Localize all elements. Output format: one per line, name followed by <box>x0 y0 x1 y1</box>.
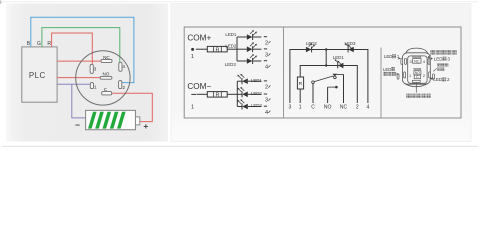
terminal 4 tab <box>119 62 122 71</box>
inner wire pins 1-2 <box>300 66 357 104</box>
push-button rear circle <box>76 51 130 105</box>
wire purple PLC to terminal 1 <box>57 83 90 85</box>
junction top <box>325 48 327 50</box>
button bottom C tab <box>412 80 420 82</box>
svg-text:3: 3 <box>265 53 268 59</box>
label LED deng 3 <box>431 57 433 59</box>
terminal 3 bottom-group <box>264 93 267 95</box>
LED3 bottom-group <box>237 106 242 108</box>
battery plus stub <box>136 117 140 125</box>
wire junction drop <box>325 50 327 66</box>
terminal 1 tab <box>90 83 93 89</box>
junction inner <box>325 64 327 66</box>
svg-text:COM−: COM− <box>187 82 211 91</box>
svg-text:4: 4 <box>423 60 425 64</box>
diagram border box <box>184 27 461 118</box>
resistor R bottom <box>207 92 227 98</box>
wire NC to pin <box>343 74 345 103</box>
svg-text:LED1: LED1 <box>225 32 237 37</box>
label LED deng 2 <box>430 77 433 80</box>
button tab left-top-a <box>401 58 403 64</box>
svg-text:3: 3 <box>265 98 268 104</box>
wire COM- to resistor <box>197 93 208 95</box>
svg-text:1: 1 <box>409 74 411 78</box>
terminal 3 tab <box>90 64 93 73</box>
button C leader line <box>415 82 417 92</box>
svg-text:R: R <box>299 81 303 87</box>
svg-text:LED3: LED3 <box>345 41 357 46</box>
button tab left-bottom <box>404 72 406 78</box>
top hairline <box>2 1 478 3</box>
svg-text:LED2: LED2 <box>225 43 237 48</box>
button NO box <box>414 71 421 75</box>
svg-text:LED: LED <box>433 77 443 82</box>
svg-text:3: 3 <box>94 66 97 71</box>
svg-text:NO: NO <box>103 72 110 77</box>
wire resistor to branch bottom <box>227 93 237 95</box>
battery body <box>86 110 136 129</box>
svg-text:LED1: LED1 <box>333 55 345 60</box>
svg-text:C: C <box>416 75 419 79</box>
svg-text:LED2: LED2 <box>251 91 263 96</box>
divider middle/right <box>380 48 382 119</box>
switch NO contact <box>327 87 329 103</box>
svg-text:1: 1 <box>191 104 194 110</box>
svg-text:2: 2 <box>423 74 425 78</box>
terminal 2 tab <box>119 81 122 89</box>
C terminal tab <box>102 92 112 95</box>
svg-text:LED1: LED1 <box>251 78 263 83</box>
svg-text:1: 1 <box>191 54 194 60</box>
svg-text:2: 2 <box>123 85 126 90</box>
wire COM+ to resistor <box>196 48 208 50</box>
svg-text:LED3: LED3 <box>251 103 263 108</box>
button ear right <box>433 74 435 79</box>
button C box <box>414 75 420 79</box>
terminal 4 top-group <box>264 60 267 62</box>
wire red C tab to battery plus <box>112 93 152 121</box>
switch NC contact <box>332 74 337 77</box>
svg-text:LED2: LED2 <box>306 41 318 46</box>
svg-text:2: 2 <box>265 40 268 46</box>
svg-text:NC: NC <box>414 59 420 63</box>
button tab right-bottom <box>429 72 431 78</box>
svg-text:2: 2 <box>356 104 359 110</box>
svg-text:LED: LED <box>384 54 392 59</box>
svg-text:G: G <box>37 41 41 47</box>
LED2 top-group <box>237 48 247 50</box>
battery green stripes <box>88 112 97 129</box>
PLC module box <box>22 47 57 102</box>
terminal 4 bottom-group <box>264 105 267 107</box>
NC terminal tab <box>101 59 112 62</box>
COM+ node <box>191 48 194 51</box>
svg-text:4: 4 <box>265 110 268 116</box>
LED2 middle <box>306 47 312 53</box>
svg-text:LED: LED <box>434 57 444 62</box>
divider left/middle <box>283 27 285 118</box>
LED1 middle <box>338 63 344 69</box>
outer loop pins 3-4 <box>290 50 368 104</box>
LED3 middle <box>348 47 354 53</box>
LED3 top-group <box>237 60 247 62</box>
label kaiguangongongduan (common) <box>406 94 411 99</box>
svg-text:1: 1 <box>94 84 97 89</box>
svg-text:LED: LED <box>383 67 391 72</box>
svg-text:+: + <box>143 121 148 131</box>
svg-text:COM+: COM+ <box>187 33 211 42</box>
svg-text:NO: NO <box>324 104 332 110</box>
wire green loop G to terminal 4 <box>42 28 120 63</box>
bottom hairline <box>2 145 478 147</box>
LED1 bottom-group <box>237 80 242 82</box>
frame corner tick <box>0 1 1 4</box>
LED2 bottom-group <box>237 93 242 95</box>
button inner body <box>408 56 427 83</box>
button outer body <box>402 53 430 84</box>
svg-text:1: 1 <box>299 104 302 110</box>
branch vertical COM- <box>236 81 238 106</box>
svg-text:NC: NC <box>340 104 348 110</box>
button ear left <box>397 74 399 79</box>
svg-text:3: 3 <box>447 57 450 62</box>
branch vertical COM+ <box>236 37 238 61</box>
wire resistor to branch <box>227 48 237 50</box>
wire red loop R to terminal 3 <box>52 33 93 64</box>
svg-text:R: R <box>47 41 51 47</box>
button NC box <box>413 59 421 64</box>
resistor R middle <box>297 77 303 89</box>
wire R to pin 1 <box>299 89 301 103</box>
label kaiguanchangbiduan (NC terminal) <box>430 50 435 55</box>
svg-text:4: 4 <box>122 64 125 69</box>
button screw slot top <box>413 56 421 57</box>
button dome <box>405 48 429 56</box>
svg-text:3: 3 <box>409 60 411 64</box>
button tab right-top-a <box>428 58 430 64</box>
wire blue loop B to terminal 2 <box>31 17 134 82</box>
COM- node dash <box>191 93 196 95</box>
svg-text:−: − <box>75 120 80 130</box>
label kaiguanchang (NO line1) <box>437 63 441 67</box>
svg-text:2: 2 <box>265 85 268 91</box>
svg-text:4: 4 <box>367 104 370 110</box>
switch lever <box>314 76 334 82</box>
switch C pole <box>312 83 314 103</box>
wire purple drop to battery minus <box>72 84 86 118</box>
terminal 2 bottom-group <box>264 80 267 82</box>
NO terminal tab <box>100 76 112 79</box>
svg-text:4: 4 <box>265 64 268 70</box>
terminal 3 top-group <box>264 48 267 50</box>
button bottom arc <box>405 83 429 86</box>
button screw slot mid <box>414 68 421 69</box>
svg-text:LED3: LED3 <box>225 62 237 67</box>
svg-text:R: R <box>215 47 219 53</box>
button tab left-top-b <box>405 58 407 64</box>
resistor R top <box>207 46 227 52</box>
svg-text:R: R <box>215 93 219 99</box>
label kaiduan (NO line2) <box>437 68 441 72</box>
wire red PLC to NC tab <box>57 60 101 62</box>
left photo background <box>6 4 168 142</box>
terminal 2 top-group <box>264 36 267 38</box>
svg-text:2: 2 <box>447 77 450 82</box>
LED1 top-group <box>237 36 247 38</box>
wire red PLC to NO tab <box>57 77 100 79</box>
svg-text:C: C <box>311 104 315 110</box>
svg-text:PLC: PLC <box>29 71 46 80</box>
right photo background <box>171 4 471 142</box>
svg-text:3: 3 <box>289 104 292 110</box>
